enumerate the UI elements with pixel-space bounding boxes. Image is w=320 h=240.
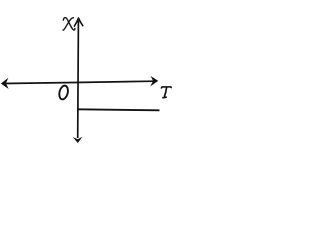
label chi: stroke 2 (top-right to bottom-left) xyxy=(63,18,73,30)
plotted line: constant negative susceptibility xyxy=(78,109,160,110)
label T: slanted stem with foot serif xyxy=(162,87,167,97)
vertical axis (chi axis) xyxy=(77,21,80,139)
left arrowhead xyxy=(1,78,9,89)
top arrowhead xyxy=(74,18,82,26)
horizontal axis (T axis) xyxy=(4,81,154,83)
label O (origin), italic oval xyxy=(58,85,69,101)
right arrowhead xyxy=(150,76,158,86)
label chi: stroke 1 (hook to bottom-right) xyxy=(63,18,75,30)
bottom arrowhead xyxy=(73,137,83,143)
label T: top bar with serifs xyxy=(161,87,171,89)
